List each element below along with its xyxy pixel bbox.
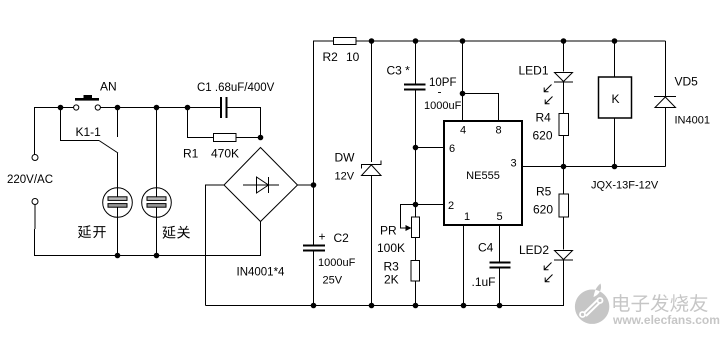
capacitor C1 <box>221 97 261 138</box>
svg-text:.1uF: .1uF <box>472 275 496 289</box>
node top rail DW branch <box>369 38 375 44</box>
label C4 .1uF <box>472 241 496 290</box>
node DW bottom on ground rail <box>369 303 375 309</box>
node junction lamp2 branch <box>154 105 160 111</box>
svg-text:LED1: LED1 <box>519 64 549 78</box>
label PR 100K <box>377 224 405 256</box>
svg-text:+: + <box>319 230 326 244</box>
wire bridge AC- to ground rail <box>206 185 225 306</box>
svg-text:C2: C2 <box>334 231 350 245</box>
wire ground rail <box>206 260 564 306</box>
wire bridge DC+ to rail <box>298 184 314 186</box>
resistor R2 <box>334 38 666 45</box>
resistor R4 <box>559 82 569 167</box>
lamp 延开 (delay-on load) <box>103 188 133 256</box>
node lamp1 on bottom AC rail <box>115 253 121 259</box>
watermark text 电子发烧友 <box>613 294 707 312</box>
svg-text:C3 *: C3 * <box>387 64 411 78</box>
node pin2 junction <box>413 202 419 208</box>
pushbutton AN <box>74 95 101 110</box>
wire pin3 output <box>522 166 666 168</box>
svg-text:C1 .68uF/400V: C1 .68uF/400V <box>197 82 275 94</box>
wire pin8 <box>463 94 499 121</box>
node R3 bottom on ground rail <box>413 303 419 309</box>
svg-text:R5: R5 <box>536 185 552 199</box>
svg-text:JQX-13F-12V: JQX-13F-12V <box>591 180 659 192</box>
label C3 * 10PF - 1000uF <box>387 64 462 113</box>
wire left bottom drop <box>35 205 261 256</box>
svg-text:AN: AN <box>100 80 117 94</box>
wire pin4 from top rail <box>462 41 464 121</box>
svg-text:3: 3 <box>510 158 516 170</box>
node pin1 on ground rail <box>461 303 467 309</box>
label R1 470K <box>183 147 239 161</box>
wire pin6 <box>416 147 444 149</box>
svg-text:DW: DW <box>335 151 356 165</box>
svg-text:R3: R3 <box>384 260 400 274</box>
relay contact K1-1 <box>61 108 119 189</box>
node junction left of button <box>58 105 64 111</box>
node top rail C3 branch <box>413 38 419 44</box>
LED1 <box>544 41 573 104</box>
svg-text:LED2: LED2 <box>519 243 549 257</box>
node C4 bottom on ground rail <box>497 303 503 309</box>
svg-text:100K: 100K <box>377 241 405 255</box>
svg-text:NE555: NE555 <box>466 170 500 182</box>
svg-text:K: K <box>612 92 620 106</box>
node junction C1/R1 branch <box>185 105 191 111</box>
relay coil K <box>599 41 632 167</box>
svg-text:620: 620 <box>533 129 553 143</box>
node lamp2 on bottom AC rail <box>154 253 160 259</box>
svg-text:8: 8 <box>495 125 501 137</box>
node pin6 junction <box>413 145 419 151</box>
svg-text:12V: 12V <box>335 171 355 183</box>
svg-text:-: - <box>438 85 442 99</box>
label R2 10 <box>323 50 360 64</box>
svg-text:6: 6 <box>449 143 455 155</box>
wire top AC line left segment <box>35 108 74 155</box>
node pin4/pin8 split <box>460 91 466 97</box>
node top rail relay branch <box>612 38 618 44</box>
label 延关 <box>162 226 189 239</box>
svg-text:C4: C4 <box>478 241 494 255</box>
node C2 bottom on ground rail <box>311 303 317 309</box>
wire pin1 to ground <box>463 225 465 306</box>
svg-text:R4: R4 <box>536 111 552 125</box>
watermark logo elecfans <box>575 284 609 324</box>
wire pin2 <box>416 204 444 206</box>
svg-text:1: 1 <box>464 211 470 223</box>
svg-text:1000uF: 1000uF <box>318 257 356 269</box>
op-amp/timer U1 NE555 <box>444 121 522 225</box>
svg-text:5: 5 <box>496 211 502 223</box>
diode VD5 IN4001 <box>654 41 676 167</box>
svg-text:IN4001: IN4001 <box>675 115 710 127</box>
svg-text:10PF: 10PF <box>429 77 457 89</box>
label 延开 <box>78 225 106 238</box>
zener diode DW 12V <box>361 41 382 306</box>
svg-text:K1-1: K1-1 <box>76 125 102 139</box>
svg-text:R1: R1 <box>183 147 199 161</box>
bridge rectifier IN4001*4 <box>224 148 298 222</box>
LED2 <box>544 251 573 306</box>
node bridge DC+ junction <box>311 182 317 188</box>
svg-text:1000uF: 1000uF <box>424 100 462 112</box>
terminal 220V/AC upper <box>32 155 38 161</box>
potentiometer PR 100K <box>401 205 420 261</box>
node pin3/relay junction <box>612 164 618 170</box>
svg-text:4: 4 <box>460 125 466 137</box>
svg-text:PR: PR <box>380 224 397 238</box>
node pin3/LED1 junction <box>561 164 567 170</box>
svg-text:VD5: VD5 <box>675 75 699 89</box>
svg-text:220V/AC: 220V/AC <box>7 174 53 186</box>
capacitor C2 <box>303 246 325 306</box>
capacitor C3 <box>404 41 426 205</box>
svg-text:25V: 25V <box>323 275 343 287</box>
label R4 620 <box>533 111 553 143</box>
label DW 12V <box>335 151 356 183</box>
wire top AC line after button <box>100 107 220 109</box>
node R1/C1 right junction <box>258 135 264 141</box>
svg-text:10: 10 <box>346 50 360 64</box>
node top rail pin4/8 branch <box>460 38 466 44</box>
resistor R5 <box>559 167 569 250</box>
resistor R3 <box>411 261 420 306</box>
svg-text:www.elecfans.com: www.elecfans.com <box>612 313 720 327</box>
wire DC+ vertical rail <box>314 41 334 245</box>
node junction right of button <box>115 105 121 111</box>
svg-text:IN4001*4: IN4001*4 <box>237 267 286 279</box>
svg-text:R2: R2 <box>323 50 339 64</box>
capacitor C4 <box>490 225 511 306</box>
terminal 220V/AC lower <box>32 199 38 205</box>
svg-text:620: 620 <box>533 203 553 217</box>
lamp 延关 (delay-off load) <box>142 108 172 256</box>
node top rail LED1 branch <box>561 38 567 44</box>
svg-text:2K: 2K <box>384 273 399 287</box>
label + C2 1000uF 25V <box>318 230 356 287</box>
svg-text:2: 2 <box>448 200 454 212</box>
label R3 2K <box>384 260 400 287</box>
resistor R1 <box>188 108 261 142</box>
svg-text:470K: 470K <box>211 147 239 161</box>
label R5 620 <box>533 185 553 217</box>
